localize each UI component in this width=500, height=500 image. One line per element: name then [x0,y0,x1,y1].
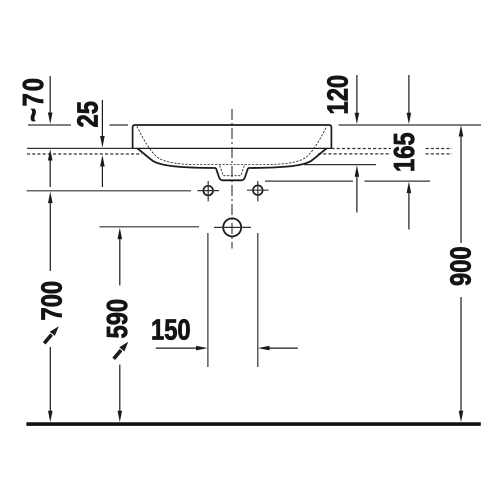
dimension 900 line with arrows [459,125,464,422]
wire: drain level reference line [99,226,199,228]
dimension 150 right arrow [258,346,298,351]
dimension 25 upper arrow [100,100,105,148]
wire: countertop underside dashed left [27,153,142,155]
washbasin bowl outer contour [138,149,327,168]
wire: countertop underside dashed right [318,153,391,155]
node: vertical centerline (dash-dot) [231,109,233,249]
fixing hole right [247,181,269,201]
dimension 165 lower arrow [407,182,412,230]
wire: countertop surface hidden dashed right part2 [426,148,452,150]
wire: drain-fitting-bottom reference line segment 2 [365,180,431,182]
svg-text:900: 900 [444,246,477,286]
dimension 150 left arrow [156,346,208,351]
washbasin interior hidden contour (dashed) [137,126,327,164]
wire: rim-top extension line left segment B [110,124,129,126]
dimension 700 oblique adjust arrow [44,326,59,343]
wire: bowl-bottom reference line right [304,164,376,166]
floor line [26,422,480,426]
dimension 25 lower arrow [100,155,105,187]
dimension 700 line with arrows [48,192,53,423]
svg-text:120: 120 [321,75,354,115]
dimension 120 upper arrow [355,75,360,124]
svg-text:590: 590 [101,299,134,339]
fixing hole left [198,181,220,201]
wire: drain-fitting-bottom reference line segment 1 [265,180,353,182]
wire: countertop surface line left solid [27,147,133,149]
dimension 165 upper arrow [407,75,412,124]
dimension ~70 lower arrow [48,149,53,187]
svg-text:165: 165 [388,132,421,172]
drain fitting interior hidden (dashed) [220,165,245,175]
svg-text:700: 700 [35,281,68,321]
dimension 590 oblique adjust arrow [114,342,129,359]
wire: fixing-hole level reference line [27,190,191,192]
svg-text:~70: ~70 [17,76,50,122]
dimension 590 line with arrows [118,228,123,423]
svg-text:150: 150 [151,313,191,346]
dimension ~70 upper arrow [48,76,53,124]
dimension 150 extension line left [207,233,209,367]
dimension 150 extension line right [257,233,259,367]
drain hole [214,218,251,236]
wire: rim-top extension line right [339,124,481,126]
wire: countertop underside dashed right part2 [426,153,452,155]
drain fitting outline [216,168,248,180]
washbasin rim outline [133,125,332,148]
wire: countertop surface hidden dashed right [332,148,392,150]
svg-text:25: 25 [71,101,104,127]
dimension 120 lower arrow [355,165,360,212]
washbasin rim bottom edge [133,147,332,149]
wire: rim-top extension line left segment A [28,124,71,126]
